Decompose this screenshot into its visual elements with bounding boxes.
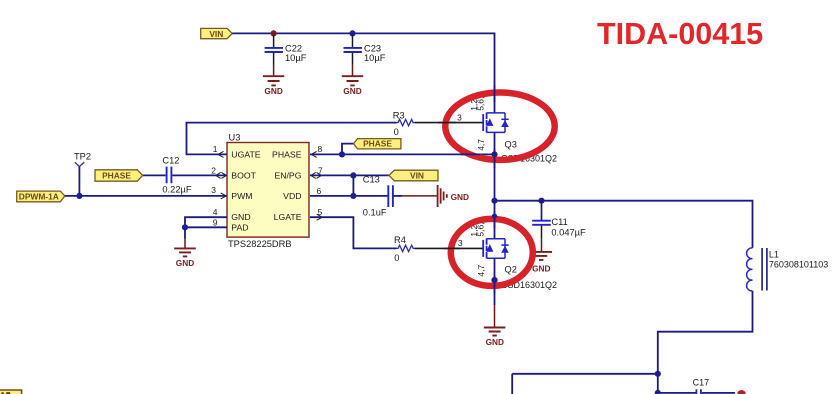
capacitor C12: [162, 156, 191, 195]
capacitor C22: [265, 35, 307, 76]
power ground (sideways) at C13: [438, 185, 469, 207]
svg-text:GND: GND: [532, 263, 550, 273]
svg-text:10µF: 10µF: [364, 53, 386, 63]
wire branch to PHASE flag: [342, 144, 354, 155]
wire Q3 source down phase node: [494, 132, 496, 200]
svg-text:0: 0: [394, 127, 399, 137]
ground under U3 pad: [174, 248, 196, 268]
node junction at C22 (maroon dot): [271, 30, 277, 36]
svg-text:0.1uF: 0.1uF: [363, 208, 387, 218]
svg-text:Q3: Q3: [505, 140, 517, 150]
svg-text:0: 0: [394, 253, 399, 263]
capacitor C17 (clipped at bottom): [693, 378, 710, 394]
transistor Q2 CSD16301Q2: [458, 222, 557, 289]
svg-text:GND: GND: [343, 86, 361, 96]
node junction Q3 source / pin8: [491, 151, 497, 157]
resistor R3: [393, 111, 415, 138]
node junction Q2 source: [491, 277, 497, 283]
svg-text:8: 8: [318, 144, 323, 154]
annotation red dot (top of circle below view): [737, 390, 746, 394]
wire phase node to L1: [495, 201, 753, 248]
svg-text:TPS28225DRB: TPS28225DRB: [228, 239, 292, 249]
svg-text:U3: U3: [229, 133, 241, 143]
wire to ground (maroon lower): [184, 239, 186, 249]
svg-text:C17: C17: [693, 378, 710, 388]
flag PHASE (left, points right): [95, 170, 143, 181]
wire PWM pin3 net: [65, 195, 227, 197]
svg-text:PHASE: PHASE: [102, 171, 131, 181]
annotation circle around Q2: [451, 219, 533, 286]
wire EN/PG pin7 net: [310, 175, 389, 196]
flag PHASE (right, points left): [354, 139, 401, 149]
svg-text:5,6,: 5,6,: [476, 222, 486, 236]
wire overpass Q2 gate through ring: [444, 247, 460, 249]
wire phase node to Q2 drain: [494, 201, 496, 239]
node junction pin8 branch: [339, 151, 345, 157]
wire overpass Q3 source through ring: [494, 149, 496, 168]
resistor R4: [394, 235, 415, 263]
svg-text:1: 1: [213, 144, 218, 154]
capacitor C11: [532, 201, 586, 252]
test point TP2: [74, 151, 91, 196]
svg-text:9: 9: [213, 217, 218, 227]
svg-text:DPWM-1A: DPWM-1A: [19, 191, 59, 201]
power flag VIN (top left): [201, 28, 233, 38]
svg-text:GND: GND: [176, 258, 194, 268]
flag fragment (bottom left corner): [0, 390, 22, 394]
flag DPWM-1A: [17, 191, 65, 202]
node junction TP2/DPWM: [76, 193, 82, 199]
svg-text:6: 6: [317, 186, 322, 196]
svg-text:PHASE: PHASE: [272, 150, 302, 160]
inductor L1: [747, 248, 829, 291]
node junction phase/C11: [538, 198, 544, 204]
svg-text:0.22µF: 0.22µF: [162, 185, 191, 195]
svg-text:GND: GND: [451, 192, 469, 202]
wire PHASE pin8 net to Q3 source: [310, 153, 495, 155]
ground under C22: [263, 76, 284, 96]
wire overpass Q2 source through ring: [494, 276, 496, 293]
node junction Q2 source (over ring): [491, 277, 497, 283]
svg-text:VDD: VDD: [283, 191, 301, 201]
wire L1 to output node: [658, 291, 753, 374]
svg-text:2: 2: [211, 165, 216, 175]
node junction Q2 drain pin: [492, 214, 497, 219]
svg-text:LGATE: LGATE: [274, 212, 302, 222]
svg-text:C12: C12: [162, 156, 179, 166]
svg-text:PHASE: PHASE: [363, 139, 392, 149]
svg-text:Q2: Q2: [505, 264, 517, 274]
svg-text:C11: C11: [551, 217, 567, 227]
svg-text:VIN: VIN: [209, 29, 223, 39]
pin 3 number and arrow: [211, 185, 226, 199]
svg-text:3: 3: [458, 238, 463, 248]
wire UGATE pin1 to R3 to Q3 gate: [187, 123, 397, 155]
wire overpass Q2 drain through ring: [494, 211, 496, 228]
svg-text:VIN: VIN: [410, 171, 424, 181]
wire BOOT pin2 from C12: [143, 174, 227, 176]
svg-text:UGATE: UGATE: [231, 150, 260, 160]
svg-text:EN/PG: EN/PG: [274, 171, 301, 181]
pin 5 number and arrow: [317, 207, 323, 220]
svg-text:3: 3: [211, 185, 216, 195]
svg-text:3: 3: [457, 112, 462, 122]
wire overpass pin8 net through ring: [461, 153, 480, 155]
wire LGATE pin5 to R4 to Q2 gate: [310, 217, 397, 248]
wire C13 to power ground (maroon): [394, 195, 403, 197]
node junction pin4/pin9: [182, 224, 188, 230]
wire Q2 source to ground: [494, 258, 496, 305]
svg-text:PWM: PWM: [231, 191, 252, 201]
wire GND pin4 / PAD pin9: [185, 217, 227, 238]
IC U3 TPS28225DRB body: [227, 133, 309, 249]
node junction Q2 drain (over ring): [492, 214, 497, 219]
capacitor C13: [363, 174, 393, 217]
ground under Q2: [484, 328, 506, 348]
svg-text:0.047µF: 0.047µF: [551, 228, 586, 238]
svg-text:L1: L1: [769, 250, 779, 260]
wire overpass Q3 drain through ring: [494, 85, 496, 102]
pin 8 number and arrow: [311, 144, 322, 157]
node junction phase at Q3/Q2 column: [491, 198, 497, 204]
pin 7 number and arrow: [311, 165, 323, 178]
capacitor C23: [344, 35, 386, 76]
svg-text:TIDA-00415: TIDA-00415: [597, 17, 763, 51]
pin 2 number and arrow: [211, 165, 226, 178]
pin 1 number and arrow: [213, 144, 224, 157]
node junction output: [655, 371, 661, 377]
svg-text:C13: C13: [363, 174, 380, 184]
transistor Q3 CSD16301Q2: [457, 97, 557, 164]
wire VIN rail to Q3 drain: [232, 33, 494, 113]
svg-text:R3: R3: [393, 111, 405, 121]
svg-text:BOOT: BOOT: [231, 171, 256, 181]
annotation circle around Q3: [445, 93, 554, 160]
svg-text:TP2: TP2: [74, 151, 91, 161]
svg-text:GND: GND: [231, 212, 250, 222]
node junction at C23 (navy dot): [349, 30, 355, 36]
wire bottom rail to C17: [658, 392, 735, 394]
svg-text:10µF: 10µF: [285, 53, 307, 63]
node junction bottom rail: [655, 390, 661, 394]
svg-text:4: 4: [213, 207, 218, 217]
svg-text:R4: R4: [394, 235, 406, 245]
ground under C23: [342, 76, 363, 96]
wire VDD pin6 net to C13: [310, 195, 388, 197]
node junction pin6: [350, 193, 356, 199]
wire overpass Q3 gate through ring: [438, 122, 456, 124]
svg-text:GND: GND: [264, 86, 282, 96]
svg-text:760308101103: 760308101103: [769, 259, 828, 269]
svg-text:PAD: PAD: [231, 222, 248, 232]
svg-text:GND: GND: [486, 337, 504, 347]
svg-text:4,7: 4,7: [476, 265, 486, 277]
svg-text:4,7: 4,7: [476, 139, 486, 151]
ground under C11: [530, 252, 552, 274]
node junction pin7: [350, 172, 356, 178]
flag VIN (right, points left): [389, 170, 438, 181]
wire output node left and down: [512, 374, 658, 394]
